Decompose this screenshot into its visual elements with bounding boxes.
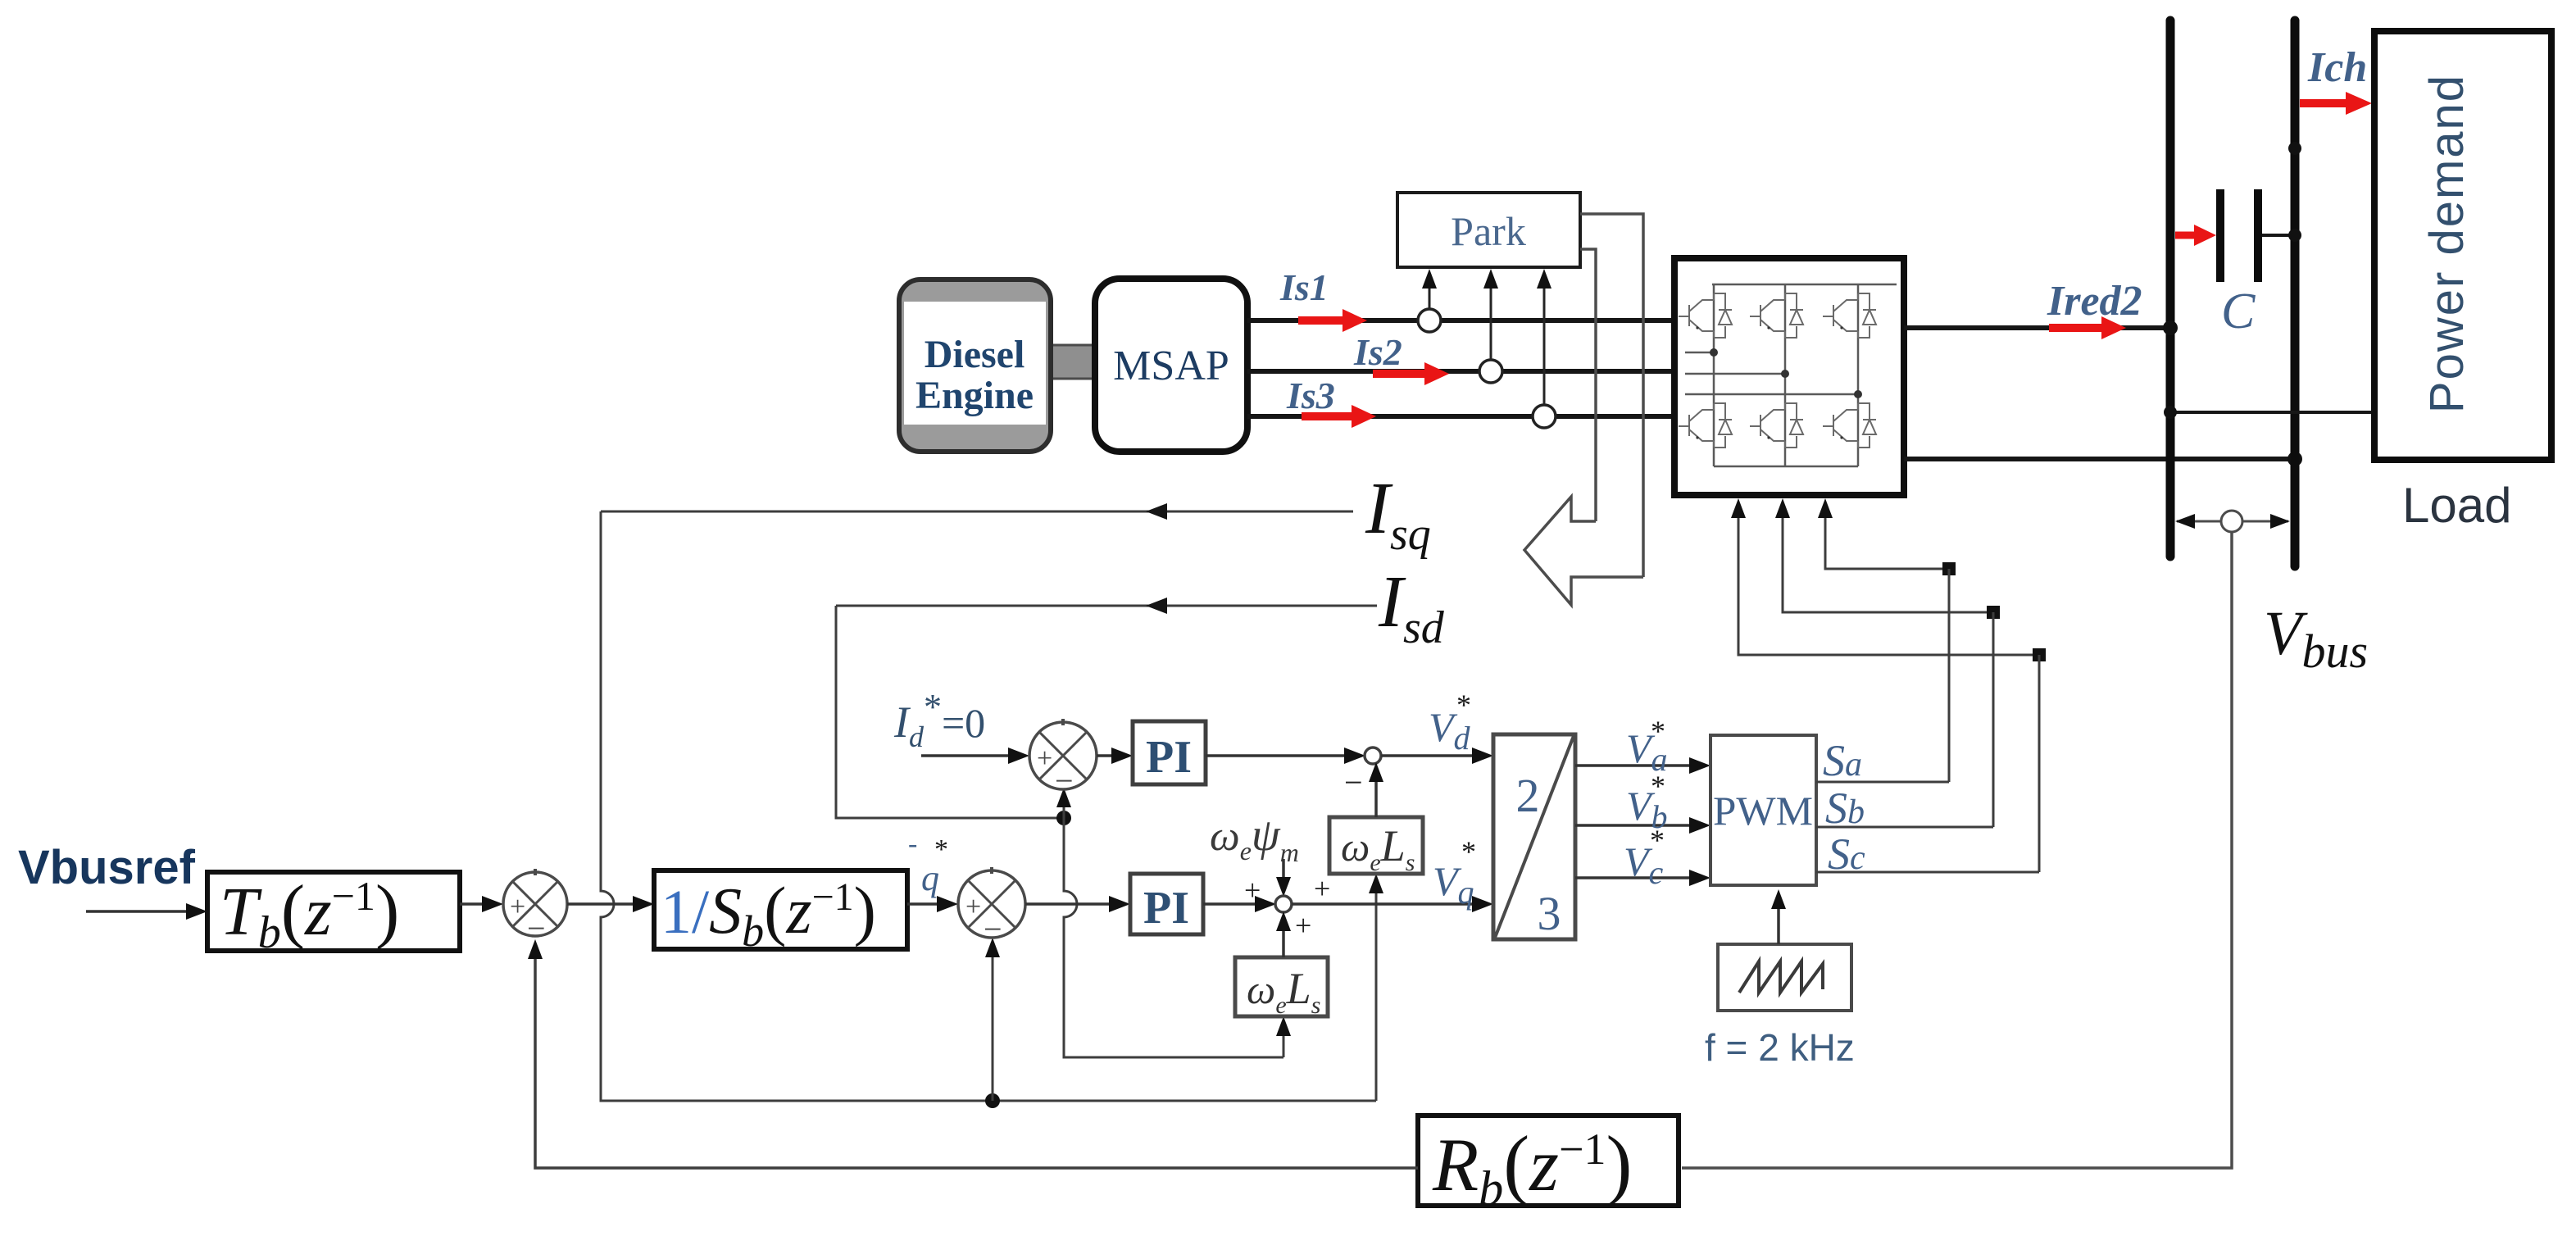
rectifier internal leg 2 xyxy=(1784,284,1787,466)
IGBT T1 xyxy=(1679,293,1732,338)
wire sawtooth to PWM xyxy=(1771,889,1786,944)
current sensor circle on Is1 xyxy=(1418,309,1441,332)
wire we psi m into q node xyxy=(1276,859,1291,897)
wire PI q to q node xyxy=(1203,896,1276,912)
block 2/3 transform xyxy=(1493,734,1575,940)
power demand load block xyxy=(2374,31,2551,460)
wire Sb output xyxy=(1816,826,1993,829)
wire phase Is2 xyxy=(1247,369,1674,374)
svg-text:+: + xyxy=(1244,874,1261,907)
wire up into q-summer minus input xyxy=(985,938,1000,1101)
wire Sc output xyxy=(1816,871,2039,874)
node gate Sc corner xyxy=(2033,648,2046,661)
red arrow into capacitor xyxy=(2175,225,2216,246)
svg-text:Is2: Is2 xyxy=(1353,331,1402,373)
block Rb(z-1) xyxy=(1418,1116,1679,1216)
wire Isq up into upper wLs block xyxy=(1369,874,1383,1101)
capacitor C plates xyxy=(2220,189,2295,282)
bus bar 2 xyxy=(2291,20,2300,566)
svg-text:*: * xyxy=(1456,688,1471,721)
wire Id ref into d summer xyxy=(921,748,1029,764)
svg-text:+: + xyxy=(1314,872,1330,905)
wire Park output upper xyxy=(1580,214,1643,577)
rectifier internal leg 1 xyxy=(1713,284,1715,466)
svg-text:Is1: Is1 xyxy=(1279,266,1329,308)
rectifier phase stub 2 xyxy=(1685,373,1785,375)
svg-text:Diesel: Diesel xyxy=(925,333,1025,376)
wire PI d to d node xyxy=(1206,748,1365,764)
wire d summer to PI d xyxy=(1097,748,1133,764)
svg-text:PWM: PWM xyxy=(1713,788,1813,834)
node junction under d-summer xyxy=(1056,811,1071,825)
wire sensor2 to Park xyxy=(1483,269,1498,360)
svg-text:*: * xyxy=(1651,715,1665,748)
current sensor circle on Is3 xyxy=(1533,405,1556,428)
block lower weLs xyxy=(1235,957,1328,1019)
wire Isd feedback horizontal xyxy=(836,598,1377,614)
svg-text:Engine: Engine xyxy=(915,374,1034,417)
red arrow Is3 xyxy=(1302,405,1376,428)
wire Rb output to summer1 xyxy=(535,945,1418,1168)
wire gate Sc down to PWM Sc line xyxy=(2038,655,2041,872)
Vbus sensor circle xyxy=(2221,511,2242,532)
Park transform block xyxy=(1397,193,1580,267)
svg-text:Vbusref: Vbusref xyxy=(18,841,196,894)
node capacitor to bus2 xyxy=(2288,229,2301,242)
wire bus1 to load xyxy=(2170,411,2374,414)
wire DC negative output xyxy=(1904,457,2295,461)
svg-text:+: + xyxy=(1295,909,1311,942)
wire Isd down to lower wLs block xyxy=(1064,818,1283,1057)
wire Vc* to PWM xyxy=(1575,870,1711,886)
wire upper weLs to d node xyxy=(1369,762,1383,817)
IGBT T6 xyxy=(1823,403,1876,448)
node load line on bus1 xyxy=(2164,406,2177,419)
q summing node xyxy=(1275,896,1292,912)
node gate Sb corner xyxy=(1987,606,2000,619)
current sensor circle on Is2 xyxy=(1479,360,1502,383)
IGBT T3 xyxy=(1823,293,1876,338)
wire gate Sc riser xyxy=(1738,502,2039,655)
wire gate Sa down to PWM Sa line xyxy=(1948,569,1951,782)
summer1 Vbus loop xyxy=(503,869,567,947)
svg-text:Is3: Is3 xyxy=(1286,375,1335,416)
wire Sb to summer3 xyxy=(907,896,958,912)
rectifier converter block xyxy=(1674,258,1904,495)
block PI q-axis xyxy=(1130,874,1203,934)
svg-text:-: - xyxy=(908,829,917,859)
wire lower weLs to q node xyxy=(1276,911,1291,957)
Vbus sensor double arrow xyxy=(2175,514,2290,529)
carrier sawtooth block xyxy=(1718,944,1851,1011)
node DC negative to bus2 xyxy=(2288,452,2302,466)
svg-text:Ich: Ich xyxy=(2307,44,2367,91)
wire Vbusref into Tb xyxy=(86,903,207,920)
d summing node xyxy=(1365,748,1381,764)
IGBT T2 xyxy=(1750,293,1803,338)
wire Park output lower xyxy=(1580,249,1596,521)
wire phase Is3 xyxy=(1247,414,1674,419)
node gate Sa corner xyxy=(1942,562,1956,575)
block PWM xyxy=(1711,735,1816,885)
svg-text:−: − xyxy=(984,911,1002,947)
node junction on Isq run xyxy=(985,1093,1000,1108)
wire summer3 to PI q xyxy=(1025,896,1130,912)
red arrow Is1 xyxy=(1298,309,1367,332)
wire sensor1 to Park xyxy=(1422,269,1437,309)
svg-text:−: − xyxy=(1344,764,1363,801)
IGBT T5 xyxy=(1750,403,1803,448)
svg-text:PI: PI xyxy=(1146,732,1192,783)
block Tb(z-1) xyxy=(207,871,460,958)
svg-text:3: 3 xyxy=(1538,887,1561,940)
diesel engine block xyxy=(899,279,1051,452)
node Ired2 on bus1 xyxy=(2163,320,2178,335)
summer2 d current loop xyxy=(1029,719,1097,799)
wire gate Sa riser xyxy=(1825,502,1949,569)
wire shaft between Diesel Engine and MSAP xyxy=(1050,345,1095,379)
wire gate Sb riser xyxy=(1783,502,1993,612)
wire Isq drop and run to q-summer and upper wLs xyxy=(601,511,1376,1101)
MSAP machine block xyxy=(1095,279,1247,452)
wire sensor3 to Park xyxy=(1537,269,1552,405)
block upper weLs xyxy=(1329,817,1423,876)
bus bar 1 xyxy=(2166,20,2175,557)
wire Vbus measurement down to Rb xyxy=(1682,532,2232,1168)
rectifier internal leg 3 xyxy=(1857,284,1860,466)
wire DC positive output xyxy=(1904,325,2170,330)
svg-text:MSAP: MSAP xyxy=(1113,343,1229,389)
summer3 q current loop xyxy=(958,867,1025,947)
svg-text:C: C xyxy=(2221,284,2256,339)
hollow arrow to dq currents xyxy=(1524,497,1643,605)
svg-text:f = 2 kHz: f = 2 kHz xyxy=(1705,1026,1855,1069)
svg-text:−: − xyxy=(527,910,546,947)
svg-text:Power demand: Power demand xyxy=(2420,74,2474,413)
svg-text:*: * xyxy=(1650,824,1665,857)
rectifier internal bottom rail xyxy=(1714,466,1858,468)
rectifier phase stub 3 xyxy=(1685,393,1858,396)
red arrow Ired2 xyxy=(2049,316,2126,339)
block 1/Sb(z-1) xyxy=(654,870,907,956)
wire q node to 2-3 block with Vq label xyxy=(1292,896,1493,912)
node on bus2 upper xyxy=(2288,142,2301,155)
rectifier internal top rail xyxy=(1712,284,1897,286)
wire Va* to PWM xyxy=(1575,757,1711,774)
block PI d-axis xyxy=(1133,721,1206,784)
svg-text:−: − xyxy=(1055,762,1074,799)
svg-text:PI: PI xyxy=(1143,883,1189,934)
svg-text:Ired2: Ired2 xyxy=(2047,278,2142,325)
IGBT T4 xyxy=(1679,403,1732,448)
red arrow Ich xyxy=(2300,92,2372,115)
wire d node to 2-3 block xyxy=(1381,748,1493,764)
svg-text:Park: Park xyxy=(1451,208,1526,254)
svg-text:+: + xyxy=(510,892,525,922)
wire Isq feedback horizontal xyxy=(601,503,1353,520)
wire summer1 to Sb block xyxy=(567,896,654,912)
wire up into d-summer minus input xyxy=(1056,788,1071,818)
svg-text:Load: Load xyxy=(2402,478,2511,533)
wire Tb to summer1 xyxy=(460,896,503,912)
red arrow Is2 xyxy=(1373,362,1449,385)
rectifier phase stub 1 xyxy=(1685,352,1714,354)
wire Vb* to PWM xyxy=(1575,817,1711,834)
wire phase Is1 xyxy=(1247,318,1674,323)
wire Isd drop to d-summer junction xyxy=(836,606,1057,818)
wire up into lower wLs block xyxy=(1276,1016,1291,1057)
svg-text:2: 2 xyxy=(1516,769,1540,822)
svg-text:*: * xyxy=(1651,770,1665,802)
wire gate Sb down to PWM Sb line xyxy=(1992,612,1995,827)
svg-text:+: + xyxy=(965,892,981,922)
svg-text:+: + xyxy=(1037,743,1052,774)
wire Sa output xyxy=(1816,781,1949,784)
svg-text:*: * xyxy=(934,834,948,865)
svg-text:*: * xyxy=(1461,835,1476,868)
